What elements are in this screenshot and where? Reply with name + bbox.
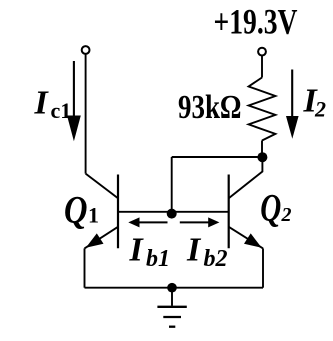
svg-text:93kΩ: 93kΩ	[178, 89, 242, 126]
svg-text:b2: b2	[204, 246, 228, 272]
current arrow Ic1	[67, 61, 81, 141]
node: Ic1 output terminal (open circle)	[82, 46, 90, 54]
current arrow Ib2 (points right)	[180, 217, 220, 227]
svg-text:c1: c1	[51, 98, 72, 123]
svg-text:Q: Q	[260, 186, 281, 229]
junction: base node (dot)	[167, 209, 177, 219]
svg-text:Q: Q	[64, 188, 88, 231]
resistor 93k ohm (zigzag)	[249, 78, 276, 141]
label Ib2	[186, 232, 228, 272]
wire: Q2 emitter down to ground rail	[262, 248, 264, 287]
label Ib1	[129, 232, 171, 272]
label Q2	[260, 186, 291, 229]
svg-text:2: 2	[314, 97, 326, 122]
ground	[157, 288, 186, 327]
svg-text:+19.3V: +19.3V	[214, 2, 298, 42]
svg-text:b1: b1	[146, 246, 170, 272]
wire: Q1 emitter down to ground rail	[84, 248, 86, 287]
wire: supply terminal to resistor top	[261, 56, 263, 78]
svg-text:1: 1	[88, 202, 99, 227]
svg-text:2: 2	[281, 204, 292, 226]
label Ic1	[34, 85, 72, 124]
wire: resistor bottom to collector junction	[261, 141, 263, 158]
node: +19.3V supply terminal (open circle)	[258, 48, 266, 56]
svg-text:I: I	[34, 85, 50, 122]
svg-text:I: I	[186, 232, 202, 269]
junction: Q2 collector node (dot)	[257, 152, 267, 162]
current arrow Ib1 (points left)	[128, 217, 167, 227]
label I2	[303, 83, 327, 122]
wire: ground rail	[85, 287, 264, 289]
wire: feedback vertical down to base node	[171, 157, 173, 212]
transistor Q1	[85, 174, 119, 249]
svg-text:I: I	[129, 232, 145, 269]
label Q1	[64, 188, 99, 231]
current arrow I2	[286, 70, 299, 139]
wire: feedback horizontal from junction to above base node	[172, 156, 263, 158]
wire: base wire connecting Q1 and Q2 bases	[118, 211, 229, 213]
transistor Q2	[229, 160, 263, 248]
junction: ground node (dot)	[167, 283, 177, 293]
wire: left collector wire down from terminal	[85, 54, 87, 173]
